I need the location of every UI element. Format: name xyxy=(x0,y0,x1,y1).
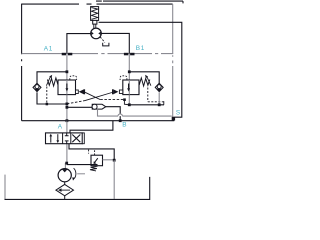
hydraulic motor M1 xyxy=(91,28,102,39)
wire: DV bottom to tank return xyxy=(69,144,114,161)
check valve left (free flow) xyxy=(33,83,41,91)
pilot loop dashed on right valve top xyxy=(120,76,127,80)
pilot line to right valve (from A side, dashed then solid) xyxy=(67,101,85,104)
tank (reservoir) xyxy=(5,175,150,200)
junction return xyxy=(113,159,116,162)
enclosure boundary left edge xyxy=(21,4,23,121)
port A1 mark xyxy=(62,53,73,56)
junction right rail at check xyxy=(158,103,161,106)
relief valve RV xyxy=(91,155,103,166)
wire: B1 riser (gray) xyxy=(128,54,130,105)
junction left rail dot1 xyxy=(66,103,69,106)
wire: left check to bottom rail xyxy=(37,92,67,104)
upper chain line to brake (net BR top) xyxy=(96,1,183,3)
svg-text:A1: A1 xyxy=(44,46,53,53)
pump P1 xyxy=(58,169,71,182)
pilot piston right valve xyxy=(112,89,123,94)
junction right rail at riser xyxy=(128,103,131,106)
wire: bottom A/B line xyxy=(22,120,175,122)
junction shuttle input xyxy=(66,106,69,109)
riser through left valve (gray) xyxy=(66,80,68,95)
counterbalance valve left: body xyxy=(58,80,76,95)
pump shaft xyxy=(77,173,85,175)
wire: shuttle input from A rail xyxy=(67,106,93,108)
directional valve DV body xyxy=(46,133,85,144)
brake piston xyxy=(93,20,97,28)
DV cell3 crossed arrows xyxy=(72,135,80,143)
svg-text:B: B xyxy=(122,121,126,128)
enclosure boundary (valve block, chain line) top edge xyxy=(22,3,173,5)
wire: motor right port to B1 xyxy=(101,33,129,53)
DV cell2 blocked ports xyxy=(65,133,69,144)
adjustable spring right valve xyxy=(139,75,151,86)
drain stub right xyxy=(163,101,165,105)
junction drain/rail xyxy=(46,103,49,106)
pump rotation arrow xyxy=(72,168,76,180)
wire: shuttle output to B-line drop xyxy=(106,107,120,121)
pilot loop dashed on left valve top xyxy=(70,76,77,80)
pilot line to left valve (from B side) xyxy=(85,92,100,99)
junction A line xyxy=(66,119,69,122)
enclosure boundary right edge (gray chain) xyxy=(172,4,174,117)
spring inside brake xyxy=(91,8,97,20)
port S mark xyxy=(172,117,175,121)
DV cell1 arrows xyxy=(49,134,59,143)
wire: A riser to pump (gray) xyxy=(65,121,67,169)
pilot piston left valve xyxy=(76,89,86,94)
counterbalance valve right: body xyxy=(123,80,139,95)
wire: brake release pilot line from S xyxy=(99,22,182,117)
wire: return pipe into tank (gray) xyxy=(113,160,115,199)
wire: right check to bottom rail xyxy=(158,92,160,104)
junction pilot corner xyxy=(123,98,126,101)
adjustable spring left valve xyxy=(46,75,58,86)
wire: left top rail xyxy=(37,72,67,84)
RV pilot dashed xyxy=(89,149,95,155)
wire: shuttle S line (gray, jumps over drop) xyxy=(98,109,172,116)
wire: right bottom rail xyxy=(129,104,164,106)
riser through right valve (gray) xyxy=(128,80,130,95)
suction strainer xyxy=(56,182,74,200)
junction B line xyxy=(119,119,122,122)
wire: RV output to return xyxy=(103,159,115,161)
shuttle valve xyxy=(92,104,106,109)
junction B1 rail xyxy=(128,70,131,73)
svg-text:A: A xyxy=(58,124,63,131)
svg-text:S: S xyxy=(176,110,180,117)
junction A1 rail xyxy=(66,70,69,73)
wire: right top rail xyxy=(129,72,159,84)
RV spring xyxy=(90,166,98,171)
wire: B line down to directional valve xyxy=(70,121,113,134)
poppet arrow in right valve xyxy=(127,84,130,92)
wire: motor left port to A1 xyxy=(67,34,91,54)
check valve right (free flow) xyxy=(155,83,163,91)
motor case drain xyxy=(100,37,109,46)
wire: pump pressure junction xyxy=(65,162,68,165)
brake (spring-applied) box xyxy=(91,7,99,21)
port B1 mark xyxy=(124,53,135,56)
wire: pump to relief input xyxy=(67,164,98,166)
wire: A1 riser (gray) xyxy=(66,54,68,121)
spring drain dashed right xyxy=(148,88,164,102)
svg-text:B1: B1 xyxy=(136,45,145,52)
wire: A1-B1 port line (chain, gray) xyxy=(22,53,174,55)
poppet arrow in left valve xyxy=(66,84,69,92)
spring drain dashed left xyxy=(46,87,48,105)
